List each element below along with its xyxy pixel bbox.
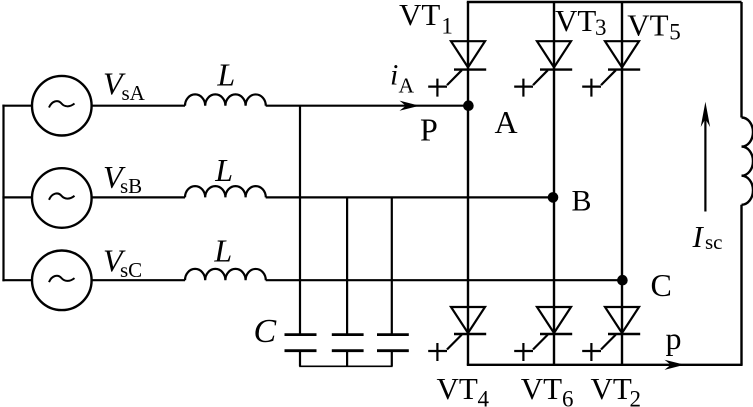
svg-text:A: A — [495, 104, 518, 140]
svg-text:VT: VT — [627, 8, 668, 43]
svg-text:4: 4 — [478, 387, 490, 407]
svg-text:VT: VT — [399, 0, 440, 32]
svg-text:C: C — [254, 313, 277, 350]
svg-text:P: P — [420, 112, 438, 148]
svg-text:A: A — [399, 73, 415, 97]
svg-text:sC: sC — [120, 258, 142, 282]
svg-text:L: L — [216, 57, 235, 93]
svg-text:p: p — [666, 320, 682, 356]
svg-text:C: C — [651, 267, 672, 303]
svg-text:3: 3 — [595, 15, 607, 40]
svg-text:sB: sB — [120, 174, 142, 198]
svg-text:1: 1 — [441, 14, 453, 39]
svg-text:sc: sc — [705, 230, 723, 254]
svg-text:VT: VT — [555, 3, 596, 38]
svg-text:sA: sA — [122, 81, 146, 105]
svg-text:B: B — [572, 185, 592, 218]
svg-text:VT: VT — [437, 371, 478, 406]
svg-text:i: i — [390, 59, 398, 92]
svg-text:5: 5 — [669, 19, 681, 44]
svg-text:VT: VT — [591, 371, 632, 406]
svg-text:VT: VT — [521, 371, 562, 406]
svg-text:2: 2 — [630, 386, 642, 407]
svg-text:6: 6 — [562, 387, 574, 407]
svg-text:L: L — [214, 152, 233, 188]
svg-text:I: I — [692, 219, 705, 254]
svg-text:L: L — [213, 233, 232, 269]
